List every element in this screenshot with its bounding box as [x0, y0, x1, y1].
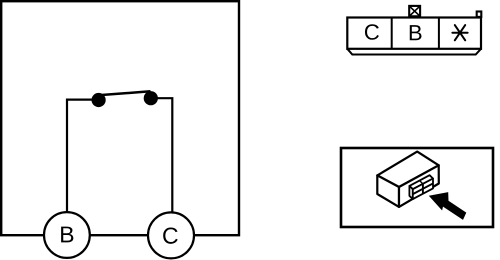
corner tab on table — [477, 12, 482, 17]
table cell label B — [410, 25, 422, 40]
relay internal circuit box — [1, 1, 239, 235]
connector pin table box — [347, 18, 481, 49]
terminal B circle — [44, 212, 90, 258]
relay body left face — [377, 175, 399, 207]
switch contact dot left — [92, 93, 106, 107]
wire from switch to terminal C — [151, 98, 172, 213]
terminal C circle — [148, 212, 194, 258]
relay connector top strip — [409, 175, 433, 189]
table base skirt — [347, 49, 481, 55]
terminal C label — [163, 228, 178, 244]
wire from terminal B up to switch — [67, 100, 97, 213]
table cell label C — [365, 24, 379, 40]
relay connector left strip — [409, 186, 412, 199]
switch blade — [97, 91, 151, 95]
table divider 1 — [391, 18, 393, 49]
terminal B label — [61, 227, 73, 243]
relay connector front face with pin grid — [413, 179, 433, 200]
pointer arrow — [429, 192, 467, 220]
relay body right face — [399, 165, 439, 207]
relay body top face — [377, 152, 438, 187]
table cell asterisk symbol — [452, 25, 467, 40]
switch contact dot right — [144, 91, 158, 105]
relay location frame — [341, 148, 493, 227]
table divider 2 — [438, 18, 440, 49]
crossed-box marker above cell B — [409, 6, 420, 16]
